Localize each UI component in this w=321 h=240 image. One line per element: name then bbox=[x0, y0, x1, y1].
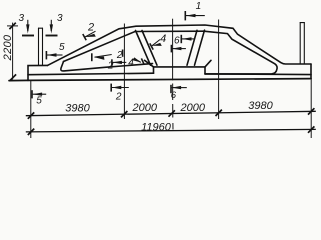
svg-text:2000: 2000 bbox=[180, 102, 206, 114]
svg-text:3: 3 bbox=[19, 13, 25, 24]
callout 2 mid with arrow bbox=[112, 50, 126, 66]
callout 4 mid-left bbox=[128, 57, 144, 68]
callout 6 bottom bbox=[171, 85, 187, 101]
arrow at axis middle bbox=[171, 45, 186, 53]
callouts bbox=[19, 1, 205, 107]
svg-text:4: 4 bbox=[128, 57, 134, 68]
callout 4 middle bbox=[150, 33, 166, 50]
wire top chord inner left bbox=[64, 31, 205, 61]
callout 3 left bbox=[19, 13, 34, 36]
wire extension right end bbox=[310, 79, 312, 138]
wire top chord inner right bbox=[204, 31, 277, 74]
post right bbox=[299, 23, 301, 64]
wire dimension row 2 bbox=[26, 129, 316, 132]
dimension texts bbox=[2, 34, 274, 133]
svg-text:5: 5 bbox=[59, 42, 65, 53]
callout 2 top bbox=[83, 22, 96, 41]
post left bbox=[38, 28, 40, 65]
lattice girder elevation drawing bbox=[0, 0, 321, 143]
dimension rows bbox=[26, 111, 316, 132]
wire base top edge left bbox=[28, 73, 154, 75]
dimension slash ticks bbox=[9, 23, 314, 135]
svg-text:2: 2 bbox=[87, 22, 94, 34]
svg-text:3980: 3980 bbox=[65, 103, 90, 115]
callout 5 top bbox=[46, 42, 65, 60]
node center axis bbox=[172, 19, 174, 81]
wire extension x=124 bbox=[123, 24, 125, 120]
wire top chord outer bbox=[48, 25, 312, 65]
svg-text:1: 1 bbox=[196, 1, 202, 12]
callout 6 middle bbox=[174, 35, 194, 47]
svg-text:3980: 3980 bbox=[248, 100, 273, 112]
svg-text:4: 4 bbox=[160, 33, 166, 45]
svg-text:2200: 2200 bbox=[2, 34, 14, 61]
callout 1 bbox=[185, 1, 205, 20]
node left end block bbox=[28, 65, 48, 80]
node middle bottom block bbox=[145, 60, 212, 67]
svg-text:3: 3 bbox=[57, 13, 63, 24]
svg-text:2: 2 bbox=[116, 50, 123, 61]
callout 5 bottom bbox=[32, 90, 46, 106]
node right end ledge bbox=[310, 64, 312, 79]
wire extension x=218.6 bbox=[218, 20, 220, 120]
svg-text:6: 6 bbox=[174, 35, 180, 46]
wire vertical dim 2200 line bbox=[12, 23, 14, 80]
wire dimension row 1 bbox=[26, 111, 316, 115]
diagonal web band left (two strokes) bbox=[136, 31, 151, 66]
svg-text:5: 5 bbox=[36, 96, 42, 107]
wire extension left end bbox=[30, 81, 32, 138]
diagonal web band right (two strokes) bbox=[195, 30, 205, 65]
wire base top edge right bbox=[205, 73, 311, 76]
callout 3 right bbox=[46, 13, 64, 36]
svg-text:2000: 2000 bbox=[132, 102, 158, 114]
wire left opening floor bbox=[61, 62, 153, 71]
wire base bottom edge bbox=[9, 79, 311, 81]
svg-text:2: 2 bbox=[115, 92, 122, 103]
callout 2 bottom bbox=[111, 84, 129, 103]
callout 2 mid-left diagonal bbox=[92, 53, 114, 71]
axis / extension lines bbox=[7, 19, 311, 138]
svg-text:11960: 11960 bbox=[141, 121, 172, 133]
